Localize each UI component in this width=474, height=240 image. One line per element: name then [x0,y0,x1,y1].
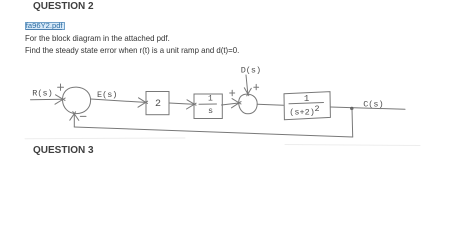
arrowhead into bottom of summer 1 [70,112,79,121]
paper edge faint line [25,138,420,146]
plus sign at summer 1 input [58,84,64,90]
plus sign at summer 2 top input [254,84,259,89]
wire: block 1/(s+2)^2 to output C(s) [330,107,405,109]
node: takeoff point [350,107,353,110]
minus sign at summer 1 feedback input [80,115,86,117]
svg-text:2: 2 [315,104,320,114]
value 2 [155,99,161,110]
summing junction 1 [62,87,90,114]
label R(s) [32,89,52,99]
summing junction 2 [239,94,258,114]
svg-text:1: 1 [208,95,213,104]
heading QUESTION 3 [33,145,94,156]
label D(s) [241,66,261,76]
wire: summer 1 to block 2 [91,99,146,102]
wire: block 2 to block 1/s [169,103,194,104]
value 1/s [208,95,213,116]
block G1 = 2 [146,92,169,115]
fraction bar of 1/(s+2)^2 [289,103,324,104]
label C(s) [363,99,383,109]
svg-text:s: s [208,106,213,116]
arrowhead into block 1/s [187,100,197,109]
heading QUESTION 2 [33,1,94,12]
svg-text:D(s): D(s) [241,66,261,76]
block G3 = 1/(s+2)^2 [284,92,330,120]
wire: feedback bottom horizontal [74,127,352,137]
paragraph line 1 [25,34,170,43]
arrowhead into block "2" [138,98,148,107]
fraction bar of 1/s [199,103,217,105]
svg-text:C(s): C(s) [363,99,383,109]
paragraph line 2 [25,46,239,55]
wire: input R(s) to summer 1 [31,98,63,101]
wire: feedback rise into summer 1 [73,114,75,127]
block diagram SVG [0,0,474,157]
svg-text:2: 2 [155,99,161,110]
svg-text:R(s): R(s) [32,89,52,99]
wire: block 1/s to summer 2 [222,103,239,105]
arrowhead of D(s) wire [244,88,251,96]
arrowhead into summer 2 [232,99,242,108]
block G2 = 1/s [194,94,222,119]
wire: summer 2 to block 1/(s+2)^2 [257,104,283,105]
arrowhead into summer 1 [55,95,65,104]
plus sign at summer 2 left input [230,90,235,95]
value 1/(s+2)^2 [289,94,319,117]
wire: feedback vertical drop from node [351,108,354,137]
label E(s) [97,90,117,100]
attachment link fa96Y2.pdf [25,22,66,31]
svg-text:(s+2): (s+2) [289,107,315,117]
svg-text:E(s): E(s) [97,90,117,100]
wire: D(s) down into summer 2 [246,75,248,94]
